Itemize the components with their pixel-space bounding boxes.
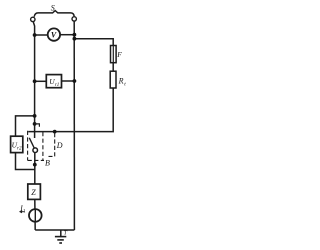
box U_r2 xyxy=(11,136,23,152)
svg-text:r2: r2 xyxy=(17,146,22,151)
svg-text:r1: r1 xyxy=(55,83,59,88)
resistor Rt xyxy=(110,71,116,88)
node dot trunk-Ur1 xyxy=(33,79,37,83)
node dot rail-Ur1 xyxy=(73,79,77,83)
switch contact circle xyxy=(33,148,38,153)
svg-text:S: S xyxy=(51,4,55,13)
wire Z to I1 xyxy=(34,199,36,230)
node dot trunk-Ur2 xyxy=(33,114,37,118)
node dot B xyxy=(33,163,37,167)
ground stub xyxy=(60,230,62,236)
wire device top tick xyxy=(35,124,40,127)
wire xyxy=(60,34,74,36)
switch S right terminal xyxy=(72,17,76,21)
switch S bar xyxy=(34,11,74,17)
wire bottom xyxy=(35,229,74,231)
switch contact blade xyxy=(29,138,34,148)
dashed box D right edge xyxy=(42,132,44,160)
wire right rail xyxy=(73,21,75,230)
svg-text:V: V xyxy=(51,31,57,40)
wire U_r1 branch left xyxy=(35,80,47,82)
wire F to Rt xyxy=(112,63,114,71)
dashed box D left edge xyxy=(27,131,29,161)
fuse F xyxy=(111,46,117,63)
ground bar 1 xyxy=(55,236,66,238)
switch S left terminal xyxy=(31,17,35,21)
wire U_r1 branch right xyxy=(62,80,75,82)
wire Rt down to device wire xyxy=(28,88,113,132)
svg-text:Z: Z xyxy=(31,188,36,197)
voltmeter V xyxy=(48,28,60,40)
box Z xyxy=(28,184,41,199)
node dot rail-F xyxy=(73,37,77,41)
wire U_r2 top jog xyxy=(16,116,35,136)
node dot trunk-V xyxy=(33,33,37,37)
node dot trunk upper device terminal xyxy=(33,122,37,126)
node dot rail-V xyxy=(73,33,77,37)
svg-text:F: F xyxy=(116,50,122,59)
svg-text:B: B xyxy=(45,158,50,167)
wire voltmeter branch xyxy=(35,34,48,36)
svg-text:R: R xyxy=(118,77,124,86)
wire fuse branch xyxy=(74,39,113,46)
ground bar 3 xyxy=(59,242,62,244)
wire left trunk upper xyxy=(33,22,34,138)
wire U_r2 bottom jog xyxy=(16,153,35,170)
dashed box D bottom edge xyxy=(28,159,44,161)
wire below contact xyxy=(34,153,36,185)
ground bar 2 xyxy=(57,239,64,241)
wire device horizontal (from Rt) dot xyxy=(53,130,57,134)
svg-text:D: D xyxy=(56,141,63,150)
linkage dashed vertical from dot xyxy=(49,133,55,156)
current source I1 xyxy=(29,209,42,222)
arrow I1 xyxy=(20,211,25,213)
box U_r1 xyxy=(46,75,61,88)
